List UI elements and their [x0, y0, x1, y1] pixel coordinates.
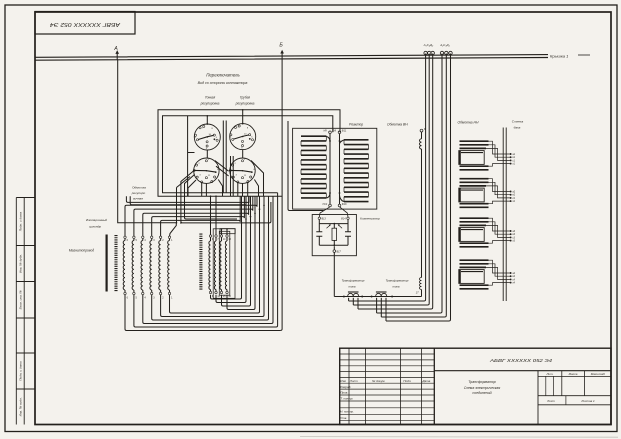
- svg-text:Крышка 1: Крышка 1: [550, 54, 568, 59]
- switch selector S2 coarse regulation: [230, 123, 256, 150]
- svg-text:Переключатель: Переключатель: [206, 73, 240, 78]
- svg-text:Компенсатор: Компенсатор: [360, 216, 380, 220]
- tank wall double line: [503, 128, 506, 302]
- label обмотка регулировочная: [131, 185, 146, 200]
- winding regulating W8: [214, 235, 220, 298]
- winding regulating W10: [225, 235, 231, 298]
- wire switch box inner loop to reactor: [163, 116, 333, 193]
- wire band extra horizontals: [126, 196, 249, 205]
- svg-text:Взам. инв. №: Взам. инв. №: [19, 290, 23, 310]
- compensator bridge: [316, 207, 351, 297]
- label тонкая / грубая регулировка: [200, 96, 255, 106]
- wire CT secondary leads: [349, 298, 386, 321]
- label обмотка НН: [458, 121, 479, 125]
- label реактор: [349, 122, 363, 126]
- title block: [340, 348, 611, 424]
- wire switch box outer loop to reactor: [158, 110, 340, 196]
- wire CT main line: [334, 296, 421, 298]
- switch selector S1 fine regulation: [194, 123, 220, 150]
- label трансформатор тока 2: [386, 279, 409, 289]
- wire right winding group nested boxes: [213, 229, 235, 299]
- insulation cylinder hatched bar right: [199, 234, 202, 291]
- wire switch stems: [207, 109, 244, 158]
- winding regulating W3: [141, 236, 146, 299]
- svg-text:Инв. № дубл.: Инв. № дубл.: [19, 254, 23, 273]
- inductor reactor left comb: [301, 136, 330, 198]
- winding regulating W4: [150, 236, 155, 299]
- label трансформатор тока 1: [342, 279, 365, 289]
- label переключатель: [198, 73, 248, 85]
- node band junction dots: [176, 195, 265, 229]
- transformer CT T1 (трансформатор тока): [348, 292, 359, 297]
- label магнитопровод: [69, 248, 94, 252]
- label изоляционный цилиндр: [86, 218, 108, 228]
- wire switch internal verticals: [223, 121, 233, 197]
- label компенсатор: [360, 216, 380, 220]
- winding regulating W2: [132, 236, 137, 299]
- winding LV group 3: [459, 218, 516, 247]
- svg-text:Магнитопровод: Магнитопровод: [69, 248, 94, 252]
- wire scan artifact streak: [300, 436, 618, 439]
- winding HV (Обмотка ВН): [387, 122, 426, 296]
- winding regulating W7: [209, 235, 214, 298]
- winding regulating W5: [159, 236, 164, 299]
- left margin stamp column: [16, 198, 35, 425]
- winding LV group 2: [459, 179, 516, 208]
- wire compensator left link: [288, 121, 324, 211]
- transformer CT T2 (трансформатор тока): [376, 292, 387, 297]
- wire bottom nested loops: [125, 193, 280, 331]
- svg-text:Подп. и дата: Подп. и дата: [19, 212, 23, 232]
- label стенка бака: [512, 120, 524, 130]
- inductor reactor box: [293, 128, 377, 209]
- svg-text:Реактор: Реактор: [349, 122, 363, 126]
- wire node B drop: [280, 58, 282, 330]
- top-left inverted stamp box: [35, 12, 135, 35]
- node B marker: [279, 42, 284, 58]
- node cover bus (Крышка): [35, 54, 590, 61]
- svg-text:Вид со стороны контактора: Вид со стороны контактора: [198, 81, 248, 85]
- winding regulating W6: [168, 236, 173, 299]
- node reactor terminals: [323, 130, 348, 207]
- winding LV group 4: [459, 260, 516, 289]
- switch selector S4: [229, 158, 255, 183]
- magnetic core bar: [105, 235, 107, 292]
- winding regulating W1: [123, 236, 128, 299]
- svg-text:Подп. и дата: Подп. и дата: [19, 361, 23, 381]
- wire bushing drop bundle: [349, 54, 451, 322]
- svg-text:Инв. № подл.: Инв. № подл.: [19, 397, 23, 416]
- svg-text:Обмотка НН: Обмотка НН: [458, 121, 479, 125]
- switch selector S3: [193, 158, 219, 183]
- insulation cylinder hatched bar left: [114, 235, 117, 292]
- winding regulating W9: [220, 235, 226, 298]
- svg-text:АБВГ XXXXXX 052 Э4: АБВГ XXXXXX 052 Э4: [50, 21, 122, 27]
- wire left winding top fan: [125, 196, 257, 236]
- bushing terminals A1 C2 D2 A2 C1 D1: [423, 43, 453, 55]
- winding LV group 1: [459, 141, 516, 170]
- wire switch bottom leads: [177, 116, 271, 223]
- compensator box: [312, 215, 356, 256]
- wire right winding risers: [211, 196, 228, 235]
- wire node A drop with jog to winding W6: [118, 60, 177, 237]
- svg-text:АБВГ XXXXXX 052 Э4: АБВГ XXXXXX 052 Э4: [489, 358, 553, 364]
- inductor reactor right comb: [340, 140, 369, 202]
- node A marker: [113, 46, 119, 60]
- svg-text:Обмотка ВН: Обмотка ВН: [387, 122, 408, 126]
